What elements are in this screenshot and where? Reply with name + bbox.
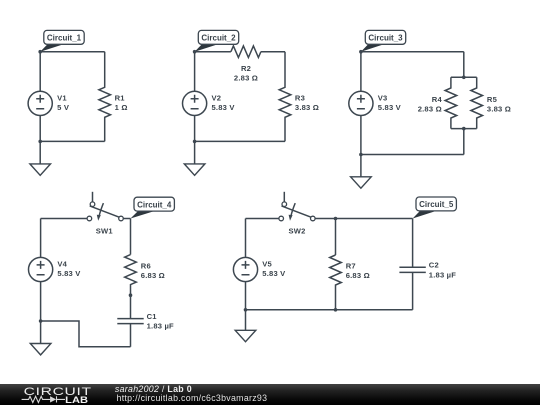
voltage source V1 bbox=[28, 91, 52, 115]
wire bottom rail circuit 5 bbox=[246, 309, 413, 311]
wire V3 bottom lead bbox=[360, 116, 362, 155]
node A3 junction dot bbox=[359, 50, 363, 54]
node circuit 2 ground junction dot bbox=[193, 140, 197, 144]
svg-text:6.83 Ω: 6.83 Ω bbox=[346, 271, 370, 280]
label R6 value 6.83 ohm bbox=[141, 262, 165, 280]
svg-text:5.83 V: 5.83 V bbox=[262, 269, 286, 278]
wire switch to corner circuit 4 bbox=[123, 218, 130, 220]
ground circuit 3 bbox=[351, 155, 372, 189]
svg-text:SW1: SW1 bbox=[96, 226, 114, 235]
svg-text:5.83 V: 5.83 V bbox=[378, 103, 402, 112]
node circuit 1 ground junction dot bbox=[38, 140, 42, 144]
wire top rail left circuit 2 bbox=[195, 51, 231, 53]
wire bottom return path circuit 4 bbox=[41, 321, 131, 347]
svg-text:1.83 µF: 1.83 µF bbox=[147, 322, 174, 331]
node R7 top junction dot bbox=[334, 217, 338, 221]
wire V5 bottom lead bbox=[245, 282, 247, 310]
label R4 value 2.83 ohm bbox=[418, 95, 443, 113]
svg-text:V4: V4 bbox=[57, 260, 67, 269]
wire V4 top lead bbox=[40, 219, 42, 258]
wire V1 bottom lead bbox=[39, 116, 41, 142]
voltage source V2 bbox=[183, 91, 207, 115]
node label Circuit_5 bbox=[413, 197, 457, 219]
wire parallel top bar bbox=[451, 76, 477, 78]
node circuit 3 ground junction dot bbox=[359, 153, 363, 157]
node A2 junction dot bbox=[193, 50, 197, 54]
label V5 value 5.83 V bbox=[262, 260, 286, 278]
svg-text:http://circuitlab.com/c6c3bvam: http://circuitlab.com/c6c3bvamarz93 bbox=[117, 393, 268, 403]
label R3 value 3.83 ohm bbox=[295, 94, 319, 112]
label V4 value 5.83 V bbox=[57, 260, 81, 278]
node circuit 4 ground junction dot bbox=[39, 319, 43, 323]
svg-text:6.83 Ω: 6.83 Ω bbox=[141, 271, 165, 280]
wire V1 top lead bbox=[39, 52, 41, 92]
node R6 C1 junction dot bbox=[129, 293, 133, 297]
svg-text:3.83 Ω: 3.83 Ω bbox=[487, 104, 511, 113]
wire V2 top lead bbox=[194, 52, 196, 92]
resistor R2 bbox=[231, 46, 261, 58]
node A1 junction dot bbox=[38, 50, 42, 54]
svg-text:5.83 V: 5.83 V bbox=[57, 269, 81, 278]
svg-text:Circuit_5: Circuit_5 bbox=[419, 200, 454, 209]
svg-text:LAB: LAB bbox=[65, 395, 88, 405]
node label Circuit_4 bbox=[131, 197, 175, 218]
svg-text:R5: R5 bbox=[487, 95, 498, 104]
svg-text:1 Ω: 1 Ω bbox=[115, 103, 128, 112]
wire V4 bottom lead bbox=[40, 282, 42, 321]
wire bottom rail circuit 3 bbox=[361, 154, 464, 156]
svg-text:Circuit_2: Circuit_2 bbox=[201, 34, 236, 43]
wire top rail circuit 1 bbox=[40, 51, 105, 53]
wire switch to C2 corner circuit 5 bbox=[315, 218, 413, 220]
ground circuit 2 bbox=[184, 141, 205, 175]
label R2 value 2.83 ohm bbox=[234, 64, 258, 82]
svg-text:3.83 Ω: 3.83 Ω bbox=[295, 103, 319, 112]
svg-text:R4: R4 bbox=[432, 95, 443, 104]
wire top rail to switch circuit 4 bbox=[41, 218, 88, 220]
ground circuit 4 bbox=[30, 321, 51, 355]
resistor R3 bbox=[279, 52, 291, 142]
svg-text:V3: V3 bbox=[378, 94, 388, 103]
svg-text:Circuit_1: Circuit_1 bbox=[47, 34, 82, 43]
voltage source V3 bbox=[349, 91, 373, 115]
voltage source V5 bbox=[233, 257, 257, 281]
resistor R6 bbox=[125, 255, 137, 296]
ground circuit 5 bbox=[235, 310, 256, 342]
node label Circuit_1 bbox=[40, 30, 84, 51]
svg-text:R6: R6 bbox=[141, 262, 151, 271]
svg-text:R3: R3 bbox=[295, 94, 305, 103]
switch SW1 bbox=[87, 192, 123, 221]
svg-text:SW2: SW2 bbox=[288, 226, 305, 235]
capacitor C1 bbox=[117, 319, 143, 324]
svg-text:1.83 µF: 1.83 µF bbox=[429, 270, 456, 279]
capacitor C2 bbox=[399, 267, 425, 272]
wire parallel bottom bar bbox=[451, 128, 477, 130]
switch SW2 bbox=[279, 192, 315, 221]
wire top rail circuit 3 bbox=[361, 51, 464, 53]
wire C2 top lead bbox=[412, 219, 414, 268]
wire top rail right circuit 2 bbox=[261, 51, 285, 53]
label R7 value 6.83 ohm bbox=[346, 262, 370, 280]
label C2 value 1.83 uF bbox=[429, 261, 456, 280]
node circuit 5 ground junction dot bbox=[244, 308, 248, 312]
resistor R7 bbox=[330, 255, 342, 310]
wire R6 top lead bbox=[130, 219, 132, 255]
wire bottom rail circuit 2 bbox=[195, 140, 285, 142]
voltage source V4 bbox=[28, 257, 52, 281]
wire C1 bottom lead bbox=[130, 324, 132, 347]
svg-text:C2: C2 bbox=[429, 261, 439, 270]
svg-text:2.83 Ω: 2.83 Ω bbox=[418, 104, 442, 113]
label C1 value 1.83 uF bbox=[147, 312, 174, 331]
wire C1 top lead bbox=[130, 295, 132, 318]
label V1 value 5 V bbox=[57, 94, 70, 112]
svg-text:Circuit_3: Circuit_3 bbox=[368, 34, 403, 43]
wire C2 bottom lead bbox=[412, 272, 414, 309]
label V2 value 5.83 V bbox=[212, 94, 236, 112]
node parallel top junction dot bbox=[462, 76, 466, 80]
wire parallel block top lead bbox=[463, 52, 465, 78]
svg-text:V5: V5 bbox=[262, 260, 272, 269]
svg-text:5.83 V: 5.83 V bbox=[212, 103, 236, 112]
svg-text:C1: C1 bbox=[147, 312, 158, 321]
wire V5 top lead bbox=[245, 219, 247, 258]
node parallel bottom junction dot bbox=[462, 127, 466, 131]
svg-text:V1: V1 bbox=[57, 94, 67, 103]
svg-text:Circuit_4: Circuit_4 bbox=[137, 200, 172, 209]
logo resistor and diode glyph bbox=[22, 396, 65, 402]
svg-text:V2: V2 bbox=[212, 94, 222, 103]
svg-text:R7: R7 bbox=[346, 262, 356, 271]
label R5 value 3.83 ohm bbox=[487, 95, 511, 113]
resistor R5 bbox=[471, 77, 483, 128]
resistor R1 bbox=[99, 52, 111, 142]
svg-text:R2: R2 bbox=[241, 64, 251, 73]
label R1 value 1 ohm bbox=[115, 94, 128, 112]
wire V3 top lead bbox=[360, 52, 362, 92]
wire bottom rail circuit 1 bbox=[40, 140, 105, 142]
node label Circuit_2 bbox=[195, 30, 239, 51]
ground circuit 1 bbox=[30, 141, 51, 175]
svg-text:2.83 Ω: 2.83 Ω bbox=[234, 73, 258, 82]
resistor R4 bbox=[445, 77, 457, 128]
node label Circuit_3 bbox=[361, 30, 406, 51]
label V3 value 5.83 V bbox=[378, 94, 402, 112]
wire V2 bottom lead bbox=[194, 116, 196, 142]
node R7 bottom junction dot bbox=[334, 308, 338, 312]
wire R7 top lead bbox=[335, 219, 337, 256]
wire parallel block bottom lead bbox=[463, 129, 465, 155]
wire top rail to switch circuit 5 bbox=[246, 218, 279, 220]
svg-text:R1: R1 bbox=[115, 94, 126, 103]
svg-text:5 V: 5 V bbox=[57, 103, 70, 112]
